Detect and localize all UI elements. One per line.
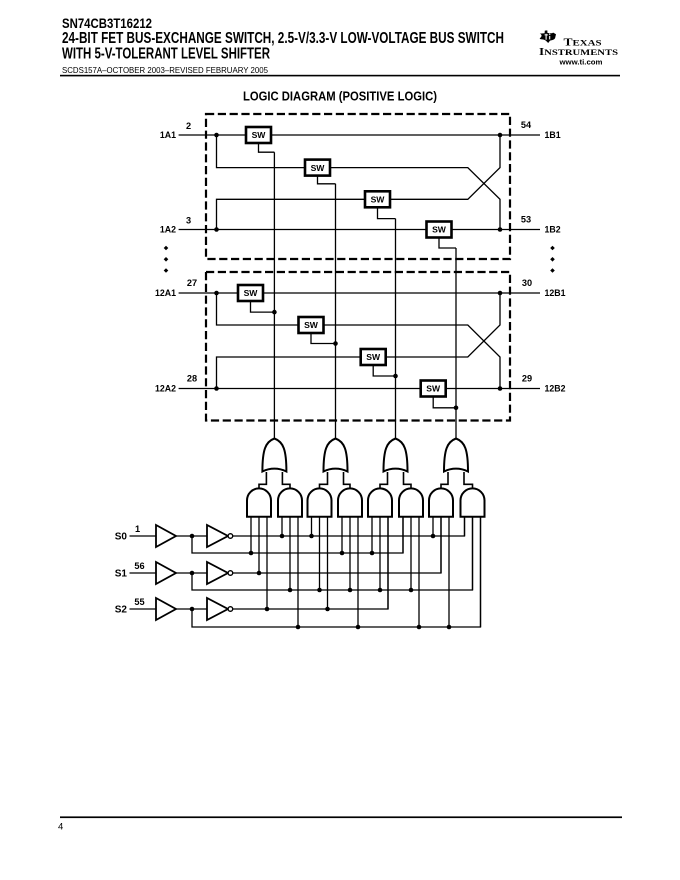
- wire OR2 left input from AND3: [320, 472, 328, 488]
- ellipsis diamonds left: [164, 246, 169, 273]
- wire OR2 output rail (vertical): [335, 184, 337, 439]
- wire AND1 input A: [250, 517, 252, 553]
- inverter S0: [207, 525, 233, 547]
- node S1 true rail tap x=411: [409, 588, 414, 593]
- node S2 inverted rail tap x=327.5: [325, 607, 330, 612]
- node S1 true rail tap x=350: [348, 588, 353, 593]
- switch SW5 (12A1-12B1): [238, 285, 263, 301]
- node 12B1 junction: [498, 291, 503, 296]
- node S1 true rail tap x=319.5: [317, 588, 322, 593]
- or-gate OR4: [444, 439, 468, 472]
- svg-text:WITH 5-V-TOLERANT LEVEL SHIFTE: WITH 5-V-TOLERANT LEVEL SHIFTER: [62, 46, 270, 63]
- wire OR4 output rail (vertical): [455, 248, 457, 439]
- wire SW8 control tap to OR4 output: [433, 397, 456, 408]
- wire AND5 input B: [379, 517, 381, 590]
- node 1B1 junction: [498, 133, 503, 138]
- svg-text:53: 53: [521, 215, 531, 225]
- wire S1 input: [130, 572, 157, 574]
- wire SW7 control tap to OR3 output: [373, 365, 395, 376]
- svg-text:SW: SW: [366, 352, 381, 362]
- wire OR4 left input from AND7: [441, 472, 448, 488]
- wire S0 inverted rail: [233, 517, 465, 536]
- svg-text:30: 30: [522, 278, 532, 288]
- wire OR1 right input from AND2: [282, 472, 290, 488]
- switch SW8 (12A2-12B2): [421, 381, 446, 397]
- wire S2 buffer to inverter: [176, 608, 207, 610]
- svg-text:SW: SW: [244, 288, 259, 298]
- svg-text:SN74CB3T16212: SN74CB3T16212: [62, 15, 152, 31]
- svg-text:INSTRUMENTS: INSTRUMENTS: [539, 47, 619, 58]
- wire 12A2 to 12B2 line: [179, 388, 540, 390]
- node S1 true rail tap x=290: [288, 588, 293, 593]
- or-gate OR1: [262, 439, 286, 472]
- wire SW6 control tap to OR2 output: [311, 333, 336, 344]
- svg-text:SW: SW: [252, 130, 267, 140]
- node S2 true rail tap x=449: [447, 625, 452, 630]
- svg-text:56: 56: [134, 561, 144, 571]
- svg-text:www.ti.com: www.ti.com: [558, 58, 602, 67]
- wire AND2 input A: [281, 517, 283, 536]
- wire S0 true rail: [192, 517, 403, 553]
- wire SW1 control to OR1 output: [259, 143, 275, 152]
- wire S1 buffer to inverter: [176, 572, 207, 574]
- svg-text:54: 54: [521, 120, 532, 130]
- buffer S0: [156, 525, 176, 547]
- node S0 true rail tap x=372: [370, 551, 375, 556]
- wire AND1 input B: [258, 517, 260, 573]
- node S0 branch: [190, 534, 195, 539]
- node 1A1 junction: [214, 133, 219, 138]
- node 1A2 junction: [214, 227, 219, 232]
- switch SW2 (1A1-1B2): [305, 160, 330, 176]
- wire OR2 right input from AND4: [344, 472, 351, 488]
- switch SW4 (1A2-1B2): [427, 222, 452, 238]
- svg-text:12B2: 12B2: [545, 384, 566, 394]
- wire OR4 right input from AND8: [464, 472, 473, 488]
- wire SW4 control to OR4 output: [439, 238, 456, 249]
- wire S2 true rail: [192, 517, 481, 627]
- node S2 branch: [190, 607, 195, 612]
- node S0 inverted rail tap x=433: [431, 534, 436, 539]
- wire S1 true rail: [192, 517, 473, 590]
- wire AND5 input C: [387, 517, 389, 609]
- footer rule: [60, 816, 622, 818]
- wire AND6 input B: [410, 517, 412, 590]
- wire SW2 control to OR2 output: [318, 176, 336, 184]
- switch SW7 (12A2-12B1): [361, 349, 386, 365]
- svg-text:28: 28: [187, 374, 197, 384]
- node S1 true rail tap x=380: [378, 588, 383, 593]
- switch SW1 (1A1-1B1): [246, 127, 271, 143]
- node 12A2 junction: [214, 386, 219, 391]
- inverter S2: [207, 598, 233, 620]
- and-gate AND4: [338, 488, 362, 516]
- wire AND6 input A: [402, 517, 404, 553]
- and-gate AND6: [399, 488, 423, 516]
- svg-text:SW: SW: [432, 225, 447, 235]
- wire 12A1 branch to crossover (to 12B2): [217, 293, 501, 389]
- wire 1A1 branch to crossover (to 1B2): [217, 135, 501, 230]
- wire 1A2 to 1B2 line: [179, 229, 540, 231]
- svg-text:S1: S1: [115, 569, 128, 580]
- wire AND7 input A: [432, 517, 434, 536]
- node 12A1 junction: [214, 291, 219, 296]
- wire AND1 input C: [266, 517, 268, 609]
- wire AND2 input B: [289, 517, 291, 590]
- svg-text:12B1: 12B1: [545, 288, 566, 298]
- and-gate AND1: [247, 488, 271, 516]
- wire S2 input: [130, 608, 157, 610]
- node 12B2 junction: [498, 386, 503, 391]
- node SW5 control junction: [272, 310, 277, 315]
- svg-text:1: 1: [135, 524, 140, 534]
- svg-text:SW: SW: [371, 195, 386, 205]
- wire 12A1 to 12B1 line: [179, 292, 540, 294]
- svg-text:LOGIC DIAGRAM (POSITIVE LOGIC): LOGIC DIAGRAM (POSITIVE LOGIC): [243, 89, 437, 103]
- inverter S1: [207, 562, 233, 584]
- wire OR3 output rail (vertical): [395, 219, 397, 439]
- svg-text:1A1: 1A1: [160, 130, 176, 140]
- switch SW3 (1A2-1B1): [365, 191, 390, 207]
- TI logo Texas map symbol: [540, 30, 556, 43]
- or-gate OR2: [324, 439, 348, 472]
- svg-text:1B2: 1B2: [545, 225, 561, 235]
- svg-text:SW: SW: [426, 384, 441, 394]
- wire AND8 input C: [480, 517, 482, 627]
- buffer S2: [156, 598, 176, 620]
- or-gate OR3: [384, 439, 408, 472]
- svg-text:4: 4: [58, 821, 63, 832]
- node S0 true rail tap x=342: [340, 551, 345, 556]
- wire S2 inverted rail: [233, 517, 388, 609]
- svg-text:12A2: 12A2: [155, 384, 176, 394]
- svg-text:SW: SW: [304, 320, 319, 330]
- wire 1A2 branch to crossover (to 1B1): [217, 135, 501, 230]
- wire AND7 input B: [440, 517, 442, 573]
- svg-text:S2: S2: [115, 605, 128, 616]
- svg-text:SW: SW: [311, 163, 326, 173]
- wire AND4 input A: [341, 517, 343, 553]
- node SW8 control junction: [454, 406, 459, 411]
- node S2 inverted rail tap x=267: [265, 607, 270, 612]
- wire AND3 input C: [327, 517, 329, 609]
- svg-text:27: 27: [187, 278, 197, 288]
- node S2 true rail tap x=298: [296, 625, 301, 630]
- wire S1 inverted rail: [233, 517, 441, 573]
- wire AND3 input B: [319, 517, 321, 590]
- and-gate AND3: [308, 488, 332, 516]
- and-gate AND5: [368, 488, 392, 516]
- wire 1A1 to 1B1 line: [179, 134, 540, 136]
- wire AND7 input C: [448, 517, 450, 627]
- buffer S1: [156, 562, 176, 584]
- wire AND8 input B: [472, 517, 474, 590]
- wire AND4 input C: [357, 517, 359, 627]
- node SW6 control junction: [333, 341, 338, 346]
- wire SW3 control to OR3 output: [378, 207, 396, 218]
- wire AND5 input A: [371, 517, 373, 553]
- svg-text:S0: S0: [115, 532, 128, 543]
- svg-text:55: 55: [134, 597, 144, 607]
- svg-text:29: 29: [522, 374, 532, 384]
- wire OR1 output rail (vertical): [273, 152, 275, 438]
- node S2 true rail tap x=419: [417, 625, 422, 630]
- wire S0 input: [130, 535, 157, 537]
- wire AND2 input C: [297, 517, 299, 627]
- wire SW5 control tap to OR1 output: [251, 301, 275, 312]
- node 1B2 junction: [498, 227, 503, 232]
- node S1 inverted rail tap x=259: [257, 571, 262, 576]
- and-gate AND7: [429, 488, 453, 516]
- wire AND4 input B: [349, 517, 351, 590]
- dashed box group 1: [206, 114, 510, 259]
- svg-text:2: 2: [186, 121, 191, 131]
- wire AND3 input A: [311, 517, 313, 536]
- svg-text:TEXAS: TEXAS: [564, 37, 603, 48]
- node S0 inverted rail tap x=311.5: [309, 534, 314, 539]
- svg-text:1A2: 1A2: [160, 225, 176, 235]
- switch SW6 (12A1-12B2): [299, 317, 324, 333]
- svg-text:24-BIT FET BUS-EXCHANGE SWITCH: 24-BIT FET BUS-EXCHANGE SWITCH, 2.5-V/3.…: [62, 30, 504, 47]
- wire 12A2 branch to crossover (to 12B1): [217, 293, 501, 389]
- node S2 true rail tap x=358: [356, 625, 361, 630]
- node SW7 control junction: [393, 374, 398, 379]
- svg-text:1B1: 1B1: [545, 130, 561, 140]
- and-gate AND8: [461, 488, 485, 516]
- and-gate AND2: [278, 488, 302, 516]
- node S1 branch: [190, 571, 195, 576]
- dashed box group 12: [206, 272, 510, 421]
- wire OR3 right input from AND6: [404, 472, 412, 488]
- svg-text:12A1: 12A1: [155, 288, 176, 298]
- svg-text:SCDS157A–OCTOBER 2003–REVISED: SCDS157A–OCTOBER 2003–REVISED FEBRUARY 2…: [62, 66, 268, 75]
- wire OR3 left input from AND5: [380, 472, 388, 488]
- node S0 inverted rail tap x=282: [280, 534, 285, 539]
- svg-text:3: 3: [186, 215, 191, 225]
- wire S0 buffer to inverter: [176, 535, 207, 537]
- ellipsis diamonds right: [550, 246, 555, 273]
- node S0 true rail tap x=251: [249, 551, 254, 556]
- wire AND8 input A: [464, 517, 466, 536]
- wire OR1 left input from AND1: [259, 472, 266, 488]
- header rule: [60, 75, 620, 77]
- wire AND6 input C: [418, 517, 420, 627]
